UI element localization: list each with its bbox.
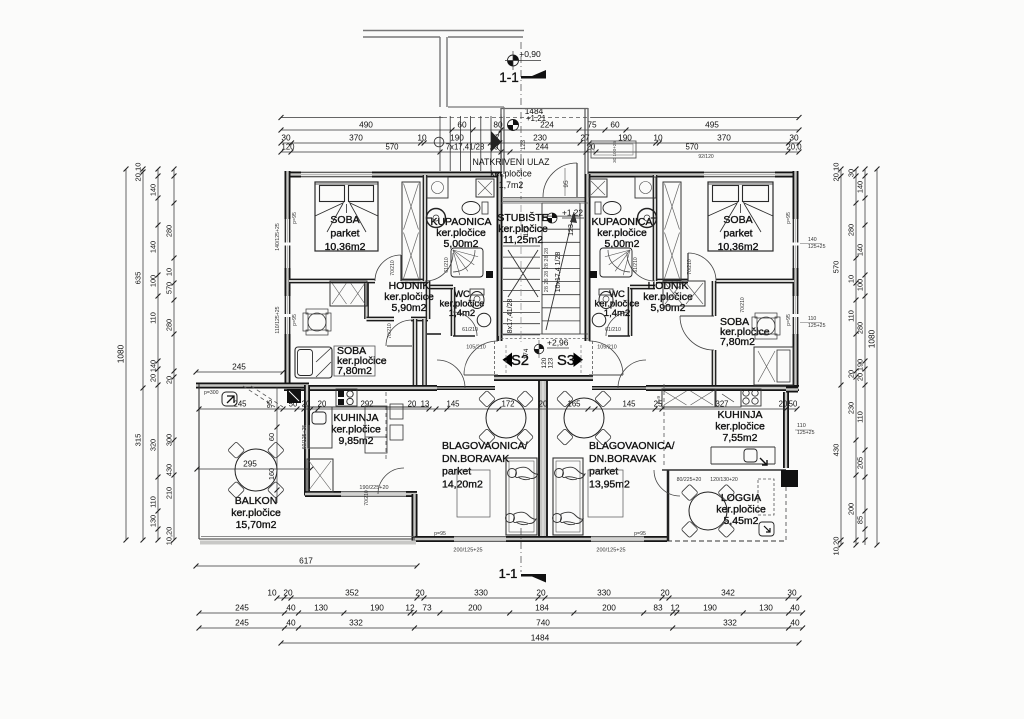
svg-text:12: 12	[670, 603, 680, 613]
svg-text:DN.BORAVAK: DN.BORAVAK	[589, 453, 656, 465]
svg-text:300: 300	[165, 434, 174, 446]
svg-text:130: 130	[759, 603, 773, 613]
svg-text:10: 10	[417, 133, 427, 143]
svg-text:140: 140	[149, 184, 158, 196]
svg-text:+0,90: +0,90	[519, 49, 541, 59]
svg-text:370: 370	[717, 133, 731, 143]
svg-text:20: 20	[856, 373, 865, 381]
svg-text:200: 200	[847, 503, 856, 515]
svg-text:145: 145	[622, 400, 636, 409]
svg-text:10,20: 10,20	[832, 536, 841, 555]
svg-text:160: 160	[267, 468, 276, 480]
svg-text:p=300: p=300	[204, 390, 219, 396]
svg-text:200/125+25: 200/125+25	[596, 548, 625, 554]
svg-text:8x17,41/28: 8x17,41/28	[507, 299, 514, 334]
svg-text:85: 85	[856, 516, 865, 524]
svg-text:123: 123	[548, 357, 555, 368]
svg-text:200/125+25: 200/125+25	[453, 548, 482, 554]
svg-text:1,7m2: 1,7m2	[499, 180, 524, 190]
svg-text:130: 130	[149, 515, 158, 527]
svg-text:5,90m2: 5,90m2	[391, 302, 426, 314]
svg-text:490: 490	[359, 120, 373, 130]
svg-text:120: 120	[281, 143, 295, 152]
svg-text:LOGGIA: LOGGIA	[721, 492, 761, 504]
svg-text:KUHINJA: KUHINJA	[718, 409, 763, 421]
svg-text:110: 110	[856, 411, 865, 423]
svg-text:1-1: 1-1	[499, 566, 518, 581]
svg-text:BALKON: BALKON	[235, 495, 278, 507]
svg-text:245: 245	[235, 603, 249, 613]
svg-text:70/210: 70/210	[740, 297, 746, 313]
svg-text:20: 20	[779, 400, 788, 409]
svg-text:14,20m2: 14,20m2	[442, 478, 483, 490]
svg-text:28 28 28 28 28 28: 28 28 28 28 28 28	[544, 248, 550, 292]
svg-text:60/125+25: 60/125+25	[302, 425, 308, 450]
svg-text:120/130+20: 120/130+20	[710, 477, 738, 483]
svg-text:p=9: p=9	[656, 396, 662, 404]
svg-text:105/210: 105/210	[466, 345, 486, 351]
svg-text:20: 20	[283, 588, 293, 598]
svg-text:13,95m2: 13,95m2	[589, 478, 630, 490]
svg-text:ker.pločice: ker.pločice	[490, 169, 532, 179]
svg-text:ker.pločice: ker.pločice	[331, 424, 381, 436]
svg-text:60: 60	[267, 433, 276, 441]
svg-text:140: 140	[856, 181, 865, 193]
svg-text:20: 20	[539, 400, 548, 409]
svg-text:200: 200	[602, 603, 616, 613]
svg-text:140: 140	[856, 244, 865, 256]
svg-text:244: 244	[535, 143, 549, 152]
svg-text:ker.pločice: ker.pločice	[716, 504, 766, 516]
svg-text:617: 617	[299, 556, 313, 566]
svg-text:370: 370	[349, 133, 363, 143]
svg-text:+1,22: +1,22	[562, 208, 583, 218]
svg-text:+1,21: +1,21	[526, 114, 547, 123]
svg-text:495: 495	[705, 120, 719, 130]
svg-text:40: 40	[790, 618, 800, 628]
svg-text:S3: S3	[557, 353, 575, 369]
svg-text:1,4m2: 1,4m2	[604, 308, 630, 319]
svg-text:330: 330	[597, 588, 611, 598]
svg-text:12: 12	[405, 603, 415, 613]
svg-text:20,10: 20,10	[832, 162, 841, 181]
svg-text:20: 20	[149, 374, 158, 382]
svg-text:130: 130	[314, 603, 328, 613]
svg-text:100: 100	[856, 279, 865, 291]
svg-text:1-1: 1-1	[499, 70, 519, 85]
svg-text:7,55m2: 7,55m2	[722, 432, 757, 444]
svg-text:70/210: 70/210	[387, 323, 393, 339]
svg-text:10: 10	[165, 268, 174, 276]
svg-text:p=95: p=95	[292, 212, 298, 224]
svg-text:parket: parket	[589, 466, 618, 478]
svg-text:245: 245	[235, 618, 249, 628]
svg-text:60: 60	[457, 120, 467, 130]
svg-text:110: 110	[808, 316, 816, 322]
svg-text:ker.pločice: ker.pločice	[715, 421, 765, 433]
svg-text:570: 570	[685, 143, 699, 152]
svg-text:145: 145	[446, 400, 460, 409]
svg-text:10x17,4 1/28: 10x17,4 1/28	[555, 252, 562, 293]
svg-text:61/210: 61/210	[462, 327, 478, 333]
svg-text:61/210: 61/210	[444, 257, 450, 273]
svg-text:10: 10	[267, 588, 277, 598]
svg-text:80/225+20: 80/225+20	[677, 477, 702, 483]
svg-text:95: 95	[563, 180, 570, 188]
svg-text:1,4m2: 1,4m2	[449, 308, 475, 319]
svg-text:parket: parket	[442, 466, 471, 478]
svg-text:105/210: 105/210	[597, 345, 617, 351]
svg-text:5,90m2: 5,90m2	[650, 302, 685, 314]
svg-text:50: 50	[789, 400, 798, 409]
svg-text:30 100+25: 30 100+25	[612, 141, 617, 163]
svg-text:110/125+25: 110/125+25	[275, 306, 281, 333]
svg-text:110: 110	[149, 496, 158, 508]
svg-text:10: 10	[653, 133, 663, 143]
svg-text:140: 140	[808, 237, 817, 243]
svg-text:125+25: 125+25	[808, 323, 826, 329]
svg-text:190: 190	[703, 603, 717, 613]
svg-text:125+25: 125+25	[797, 430, 815, 436]
svg-text:p=95: p=95	[292, 314, 298, 326]
svg-text:123: 123	[521, 139, 527, 150]
svg-text:p=95: p=95	[634, 531, 646, 537]
svg-text:1080: 1080	[867, 329, 877, 348]
svg-text:7,80m2: 7,80m2	[720, 336, 755, 348]
svg-text:40: 40	[286, 618, 296, 628]
svg-text:61/210: 61/210	[605, 327, 621, 333]
svg-text:10,20: 10,20	[165, 527, 174, 546]
svg-text:230: 230	[847, 402, 856, 414]
svg-text:330: 330	[474, 588, 488, 598]
svg-text:570: 570	[165, 282, 174, 294]
svg-text:110: 110	[149, 312, 158, 324]
svg-text:1484: 1484	[531, 633, 550, 643]
svg-text:p=95: p=95	[786, 314, 792, 326]
svg-text:60: 60	[610, 120, 620, 130]
svg-text:570: 570	[385, 143, 399, 152]
svg-text:20: 20	[536, 588, 546, 598]
svg-text:110: 110	[797, 423, 806, 429]
svg-text:172: 172	[501, 400, 514, 409]
svg-text:11,25m2: 11,25m2	[503, 234, 543, 246]
svg-text:190/225+20: 190/225+20	[359, 485, 388, 491]
svg-text:SOBA: SOBA	[723, 214, 752, 226]
svg-text:parket: parket	[330, 228, 359, 240]
svg-text:KUHINJA: KUHINJA	[334, 412, 379, 424]
svg-text:210: 210	[165, 487, 174, 499]
svg-text:332: 332	[723, 618, 737, 628]
svg-text:70/210: 70/210	[364, 490, 370, 506]
svg-text:123: 123	[568, 224, 575, 236]
svg-text:40: 40	[790, 603, 800, 613]
svg-text:332: 332	[349, 618, 363, 628]
svg-text:DN.BORAVAK: DN.BORAVAK	[442, 453, 509, 465]
svg-text:20: 20	[660, 588, 670, 598]
svg-text:20,10: 20,10	[134, 162, 143, 181]
svg-text:295: 295	[243, 459, 257, 469]
svg-text:20: 20	[415, 588, 425, 598]
svg-text:280: 280	[165, 319, 174, 331]
svg-text:SOBA: SOBA	[330, 214, 359, 226]
svg-text:70/210: 70/210	[687, 259, 693, 275]
svg-text:190: 190	[450, 133, 464, 143]
svg-text:280: 280	[165, 225, 174, 237]
svg-text:+2,96: +2,96	[547, 338, 569, 348]
svg-text:140: 140	[149, 241, 158, 253]
svg-text:parket: parket	[723, 228, 752, 240]
svg-text:7x17,41/28: 7x17,41/28	[446, 143, 485, 152]
svg-text:315: 315	[134, 434, 143, 447]
svg-text:230: 230	[533, 133, 547, 143]
svg-text:245: 245	[232, 362, 246, 372]
svg-text:83: 83	[653, 603, 663, 613]
svg-text:30: 30	[789, 133, 799, 143]
svg-text:110: 110	[847, 310, 856, 322]
svg-text:184: 184	[535, 603, 549, 613]
svg-text:635: 635	[134, 272, 143, 285]
svg-text:p=95: p=95	[434, 531, 446, 537]
svg-text:15,70m2: 15,70m2	[236, 519, 277, 531]
svg-text:ker.pločice: ker.pločice	[231, 507, 281, 519]
svg-text:352: 352	[345, 588, 359, 598]
svg-text:30: 30	[847, 169, 856, 177]
svg-text:20: 20	[847, 370, 856, 378]
svg-text:92/120: 92/120	[698, 154, 714, 160]
svg-text:740: 740	[536, 618, 550, 628]
svg-text:190: 190	[856, 359, 865, 371]
svg-text:245: 245	[233, 400, 247, 409]
svg-text:7,80m2: 7,80m2	[337, 365, 372, 377]
svg-text:73: 73	[422, 603, 432, 613]
svg-text:5,45m2: 5,45m2	[723, 515, 758, 527]
svg-text:570: 570	[832, 261, 841, 274]
svg-text:NATKRIVENI ULAZ: NATKRIVENI ULAZ	[472, 157, 550, 167]
svg-text:140: 140	[149, 360, 158, 372]
svg-text:280: 280	[847, 224, 856, 236]
svg-text:100: 100	[149, 275, 158, 287]
svg-text:BLAGOVAONICA/: BLAGOVAONICA/	[589, 440, 675, 452]
svg-text:20,0: 20,0	[786, 143, 802, 152]
svg-text:S2: S2	[511, 353, 529, 369]
svg-text:125+25: 125+25	[808, 244, 826, 250]
svg-text:280: 280	[856, 322, 865, 334]
svg-text:320: 320	[149, 439, 158, 451]
svg-text:p=95: p=95	[786, 212, 792, 224]
svg-text:30: 30	[281, 133, 291, 143]
svg-text:342: 342	[721, 588, 735, 598]
svg-text:61/210: 61/210	[633, 257, 639, 273]
svg-text:1080: 1080	[116, 344, 126, 363]
svg-text:200: 200	[468, 603, 482, 613]
svg-text:140/125+25: 140/125+25	[275, 223, 281, 251]
svg-text:205: 205	[856, 457, 865, 469]
svg-text:430: 430	[832, 444, 841, 457]
svg-text:75: 75	[587, 120, 597, 130]
svg-text:BLAGOVAONICA/: BLAGOVAONICA/	[442, 440, 528, 452]
svg-text:70/210: 70/210	[390, 260, 396, 276]
svg-text:95: 95	[265, 400, 274, 408]
svg-text:190: 190	[370, 603, 384, 613]
svg-text:10: 10	[847, 275, 856, 283]
svg-text:430: 430	[165, 464, 174, 476]
svg-text:40: 40	[286, 603, 296, 613]
svg-text:20: 20	[165, 376, 174, 384]
svg-text:30: 30	[787, 588, 797, 598]
